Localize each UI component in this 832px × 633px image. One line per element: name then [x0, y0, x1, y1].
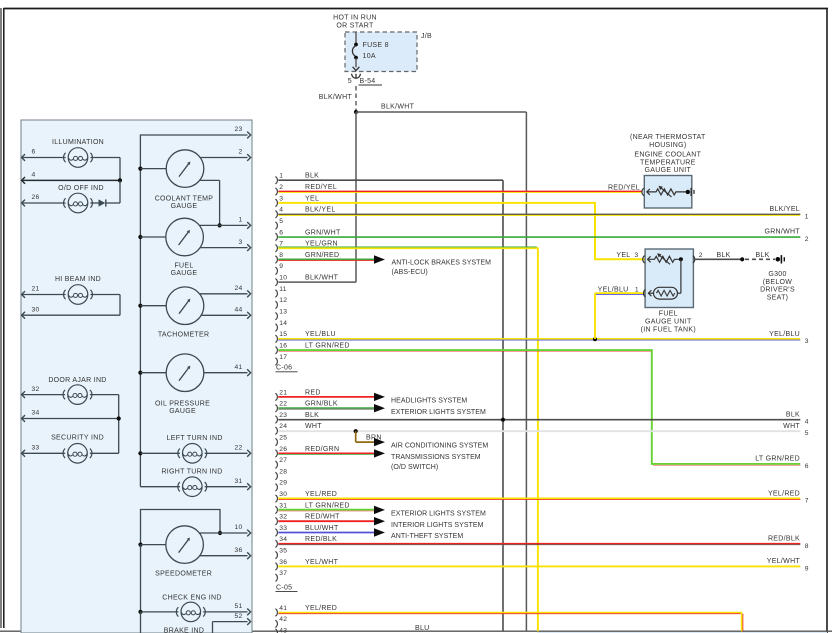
connector C-05 pin 30 YEL/RED — [275, 491, 337, 502]
pin 52 arrow out — [247, 618, 250, 625]
edge pin 3 YEL/BLU — [769, 331, 809, 345]
wire pin21 to lamp — [22, 294, 66, 296]
label EXTERIOR LIGHTS SYSTEM 1 — [391, 409, 486, 416]
wire pin34 RED/BLK run — [278, 544, 800, 545]
label TACHOMETER — [158, 332, 209, 339]
edge pin 9 YEL/WHT — [767, 558, 809, 572]
edge pin 2 GRN/WHT — [764, 229, 808, 243]
svg-text:INTERIOR LIGHTS SYSTEM: INTERIOR LIGHTS SYSTEM — [391, 522, 484, 529]
wire pin21 RED tap — [278, 396, 374, 398]
svg-text:32: 32 — [32, 386, 40, 393]
label FUSE 8 — [363, 42, 389, 49]
gauge FUEL — [166, 218, 204, 256]
fuel sender resistor R2 — [648, 287, 677, 299]
connector C-05 pin 27 — [275, 457, 287, 468]
node junction illumination/od — [118, 178, 122, 182]
svg-text:1: 1 — [635, 287, 639, 294]
node junction YEL/BLU — [593, 337, 597, 341]
svg-text:COOLANT TEMP: COOLANT TEMP — [155, 195, 214, 202]
svg-text:(BELOW: (BELOW — [763, 279, 793, 286]
border frame left outer line — [0, 8, 2, 628]
svg-text:9: 9 — [805, 565, 809, 572]
pin 1 label — [238, 217, 242, 224]
svg-text:C-05: C-05 — [276, 584, 292, 591]
svg-text:10: 10 — [279, 275, 287, 282]
wire pin41 YEL/RED run — [278, 613, 743, 632]
connector C-05 pin 29 — [275, 480, 287, 491]
connector C-06 pin 12 — [275, 297, 287, 308]
node bus fuel — [138, 235, 142, 239]
svg-text:(IN FUEL TANK): (IN FUEL TANK) — [641, 326, 696, 333]
svg-text:BLK: BLK — [305, 173, 319, 180]
svg-text:36: 36 — [234, 547, 242, 554]
wire fuel pin3 — [200, 247, 247, 249]
svg-text:DOOR AJAR IND: DOOR AJAR IND — [48, 377, 106, 384]
wire fuelgauge pin1 — [199, 224, 247, 226]
connector C-05 pin 28 — [275, 468, 287, 479]
wire bus corner to rightturn lamp — [140, 486, 180, 488]
connector C-05 pin 26 RED/GRN — [275, 446, 339, 457]
wire fuse top lead — [355, 32, 357, 45]
label C-05 — [276, 584, 298, 591]
label HI BEAM IND — [55, 276, 101, 283]
arrow air conditioning system — [374, 438, 385, 446]
label YEL/BLU 1 at fuel unit — [598, 287, 639, 294]
svg-text:3: 3 — [238, 239, 242, 246]
wire fuel internal down — [678, 259, 681, 293]
svg-text:8: 8 — [805, 543, 809, 550]
label FUEL GAUGE — [171, 263, 198, 278]
svg-text:4: 4 — [279, 207, 283, 214]
fuse FUSE 8 10A — [352, 43, 357, 60]
connector C-05 pin 33 BLU/WHT — [275, 525, 339, 536]
border frame top line — [4, 8, 829, 10]
svg-text:16: 16 — [279, 343, 287, 350]
svg-text:RED/BLK: RED/BLK — [768, 536, 800, 543]
arrow interior lights system — [374, 517, 385, 525]
connector C-06 pin 6 GRN/WHT — [275, 229, 341, 240]
svg-text:29: 29 — [279, 480, 287, 487]
pin 36 label — [234, 547, 242, 554]
pin 44 arrow out — [247, 312, 250, 319]
svg-text:B-54: B-54 — [360, 78, 376, 85]
diode D1 o/d off — [99, 199, 106, 206]
connector C-05 pin 25 — [275, 435, 287, 446]
wire speedo pin10 — [199, 532, 247, 534]
svg-text:O/D OFF IND: O/D OFF IND — [58, 185, 104, 192]
svg-text:LT GRN/RED: LT GRN/RED — [755, 456, 800, 463]
svg-text:DRIVER'S: DRIVER'S — [760, 287, 795, 294]
pin 1 arrow out — [247, 222, 250, 229]
svg-text:23: 23 — [234, 126, 242, 133]
arrow transmissions system — [374, 449, 385, 457]
connector C-05 pin 36 YEL/WHT — [275, 559, 338, 570]
connector C-05 pin 21 RED — [275, 389, 320, 400]
wire rightturn pin31 — [205, 486, 248, 488]
svg-text:RED/WHT: RED/WHT — [305, 514, 340, 521]
instrument cluster panel box — [21, 120, 252, 633]
wire BLK/WHT dashed from B-54 — [355, 86, 357, 110]
arrow fuse output — [353, 67, 360, 71]
wire pin33 to lamp — [22, 452, 65, 454]
pin 44 label — [234, 307, 242, 314]
wire bus to oil gauge — [140, 372, 166, 374]
connector C-06 pin 9 — [275, 263, 283, 274]
svg-text:GRN/WHT: GRN/WHT — [305, 229, 341, 236]
svg-text:31: 31 — [279, 502, 287, 509]
connector pin 42 — [275, 616, 287, 627]
svg-text:GAUGE: GAUGE — [171, 270, 198, 277]
svg-text:5: 5 — [279, 218, 283, 225]
fuel gauge unit box U3 — [645, 249, 693, 308]
label CHECK ENG IND — [162, 594, 222, 601]
wire BLK/WHT horizontal run — [356, 111, 526, 113]
svg-text:GRN/RED: GRN/RED — [305, 252, 339, 259]
fuel unit pin 2 bracket — [693, 256, 695, 263]
node bus leftturn — [138, 451, 142, 455]
label G300 — [760, 271, 795, 301]
label 2 BLK at fuel unit — [699, 252, 731, 259]
pin 31 label — [234, 478, 242, 485]
arrow anti-theft system — [374, 528, 385, 536]
label ECT gauge unit title — [630, 134, 706, 174]
wire bus to brake lamp — [140, 612, 142, 633]
border frame right line — [826, 9, 828, 633]
svg-text:RED/GRN: RED/GRN — [305, 446, 339, 453]
connector C-06 pin 16 LT GRN/RED — [275, 343, 349, 354]
svg-text:8: 8 — [279, 252, 283, 259]
label COOLANT TEMP GAUGE — [155, 195, 214, 210]
svg-text:G300: G300 — [768, 271, 786, 278]
connector C-05 pin 37 — [275, 570, 287, 581]
pin 32 label — [32, 386, 40, 393]
ECT gauge unit box U2 — [644, 176, 692, 209]
gauge SPEEDOMETER — [166, 526, 204, 564]
wire oil pin41 — [204, 372, 248, 374]
lamp HI BEAM IND — [64, 285, 93, 305]
svg-text:YEL: YEL — [305, 195, 319, 202]
svg-text:AIR CONDITIONING SYSTEM: AIR CONDITIONING SYSTEM — [391, 443, 488, 450]
connector pin 41 YEL/RED — [275, 605, 337, 616]
pin 24 label — [234, 285, 242, 292]
arrow exterior lights system 1 — [374, 404, 385, 412]
connector C-05 pin 22 GRN/BLK — [275, 401, 337, 412]
svg-text:(O/D SWITCH): (O/D SWITCH) — [391, 464, 438, 471]
pin 41 arrow out — [247, 369, 250, 376]
svg-text:3: 3 — [635, 252, 639, 259]
label O/D OFF IND — [58, 185, 104, 192]
wire fuse bottom lead — [355, 58, 357, 67]
label ANTI-LOCK BRAKES SYSTEM — [392, 259, 492, 276]
svg-text:41: 41 — [234, 364, 242, 371]
connector C-06 pin 11 — [275, 286, 286, 297]
pin 34 arrow — [22, 415, 25, 422]
svg-text:2: 2 — [699, 252, 703, 259]
label BRAKE IND — [164, 628, 204, 633]
svg-text:22: 22 — [234, 445, 242, 452]
svg-text:LT GRN/RED: LT GRN/RED — [305, 502, 350, 509]
pin 6 label — [32, 149, 36, 156]
svg-text:HOUSING): HOUSING) — [649, 142, 686, 149]
pin 41 label — [234, 364, 242, 371]
wire coolant pin2 — [200, 157, 247, 159]
wire pin1 BLK run — [278, 180, 503, 631]
node junction BLK pin23 — [501, 418, 505, 422]
svg-text:1: 1 — [805, 213, 809, 220]
wire BLK/WHT vertical long run — [525, 112, 527, 631]
arrow exterior lights system 2 — [374, 506, 385, 514]
svg-text:ENGINE COOLANT: ENGINE COOLANT — [634, 152, 701, 159]
connector C-05 pin 35 — [275, 548, 287, 559]
svg-text:YEL/RED: YEL/RED — [768, 490, 800, 497]
wire checkeng pin51 — [203, 611, 247, 613]
wire od lamp to diode — [90, 202, 98, 204]
node bus oil — [138, 371, 142, 375]
svg-text:6: 6 — [279, 229, 283, 236]
svg-text:ILLUMINATION: ILLUMINATION — [52, 139, 104, 146]
svg-text:1: 1 — [279, 173, 283, 180]
wire pin6 to lamp — [22, 157, 66, 159]
svg-text:23: 23 — [279, 412, 287, 419]
wire bus to leftturn lamp — [140, 452, 180, 454]
connector C-06 pin 1 BLK — [275, 173, 319, 184]
pin 33 label — [32, 445, 40, 452]
svg-text:TRANSMISSIONS SYSTEM: TRANSMISSIONS SYSTEM — [391, 454, 481, 461]
wire bus lower — [140, 545, 142, 612]
svg-text:YEL/RED: YEL/RED — [305, 491, 337, 498]
lamp CHECK ENG IND — [176, 602, 205, 622]
label AIR CONDITIONING SYSTEM — [391, 443, 488, 450]
wire pin15 YEL/BLU run — [278, 339, 800, 340]
label YEL 3 at fuel unit — [616, 252, 638, 259]
ECT internal variable resistor — [647, 186, 686, 197]
svg-text:21: 21 — [32, 286, 40, 293]
svg-text:ANTI-LOCK BRAKES SYSTEM: ANTI-LOCK BRAKES SYSTEM — [392, 259, 492, 266]
svg-text:GAUGE: GAUGE — [171, 203, 198, 210]
pin 4 arrow — [22, 177, 25, 184]
edge pin 1 BLK/YEL — [769, 206, 808, 220]
label B-54 — [359, 78, 383, 85]
pin 21 arrow — [22, 291, 25, 298]
wire illumination lamp to corner — [90, 158, 120, 181]
svg-text:RED/YEL: RED/YEL — [305, 184, 337, 191]
node junction WHT brn tap — [354, 429, 358, 433]
gauge TACHOMETER — [166, 287, 204, 325]
wire pin30 — [22, 314, 120, 316]
pin 31 arrow out — [247, 483, 250, 490]
svg-text:15: 15 — [279, 331, 287, 338]
svg-text:41: 41 — [279, 605, 287, 612]
node junction pin1 — [218, 223, 222, 227]
svg-text:GAUGE UNIT: GAUGE UNIT — [645, 167, 692, 174]
label EXTERIOR LIGHTS SYSTEM 2 — [391, 511, 486, 518]
node junction BLK ground — [740, 257, 744, 261]
wire pin4 BLK/YEL run — [278, 214, 800, 215]
lamp RIGHT TURN IND — [178, 477, 207, 497]
svg-text:31: 31 — [234, 478, 242, 485]
svg-text:YEL: YEL — [616, 252, 630, 259]
svg-text:RIGHT TURN IND: RIGHT TURN IND — [161, 468, 222, 475]
label C-06 — [276, 365, 298, 372]
svg-text:44: 44 — [234, 307, 242, 314]
connector C-06 pin 15 YEL/BLU — [275, 331, 336, 342]
label BLK dashed — [756, 252, 770, 259]
connector C-06 pin 4 BLK/YEL — [275, 207, 335, 218]
svg-text:21: 21 — [279, 389, 287, 396]
label DOOR AJAR IND — [48, 377, 106, 384]
wire bus to speedometer — [141, 544, 166, 546]
label SECURITY IND — [51, 434, 104, 441]
svg-text:26: 26 — [32, 194, 40, 201]
label fuel gauge unit title — [641, 311, 696, 334]
connector C-05 pin 24 WHT — [275, 423, 322, 434]
connector B-54 socket — [352, 74, 361, 78]
svg-text:2: 2 — [238, 149, 242, 156]
pin 51 label — [234, 603, 242, 610]
connector C-05 pin 23 BLK — [275, 412, 319, 423]
pin 52 label — [234, 613, 242, 620]
wire speedo loop — [141, 510, 221, 545]
svg-text:GRN/WHT: GRN/WHT — [764, 229, 800, 236]
svg-text:13: 13 — [279, 309, 287, 316]
svg-text:2: 2 — [805, 236, 809, 243]
wire BLK/WHT down to pin 10 — [278, 112, 356, 282]
node junction speedo pin10 — [218, 531, 222, 535]
pin 10 label — [234, 524, 242, 531]
lamp ILLUMINATION — [64, 148, 93, 168]
svg-text:22: 22 — [279, 401, 287, 408]
svg-text:BRAKE IND: BRAKE IND — [164, 628, 204, 633]
wire pin23 BLK run — [278, 419, 800, 421]
svg-text:HI BEAM IND: HI BEAM IND — [55, 276, 101, 283]
arrow anti-lock brakes system — [374, 255, 385, 263]
connector C-05 pin 31 LT GRN/RED — [275, 502, 349, 513]
svg-text:YEL/BLU: YEL/BLU — [305, 331, 336, 338]
pin 22 arrow out — [247, 450, 250, 457]
wire pin8 GRN/RED tap — [278, 259, 374, 260]
wire pin4 bus — [22, 179, 120, 181]
svg-text:BLU/WHT: BLU/WHT — [305, 525, 339, 532]
svg-text:C-06: C-06 — [276, 365, 292, 372]
label 5 — [348, 78, 352, 85]
pin 23 arrow out — [247, 132, 250, 139]
wire leftturn pin22 — [205, 452, 248, 454]
label TRANSMISSIONS SYSTEM — [391, 454, 481, 471]
svg-text:2: 2 — [279, 184, 283, 191]
pin 2 label — [238, 149, 242, 156]
svg-text:SECURITY IND: SECURITY IND — [51, 434, 104, 441]
label BLK/WHT left of dashed wire — [319, 94, 353, 101]
svg-text:TEMPERATURE: TEMPERATURE — [640, 159, 696, 166]
pin 3 arrow out — [247, 244, 250, 251]
svg-text:EXTERIOR LIGHTS SYSTEM: EXTERIOR LIGHTS SYSTEM — [391, 409, 486, 416]
connector C-06 pin 10 BLK/WHT — [275, 275, 338, 286]
gauge OIL PRESSURE — [166, 354, 204, 392]
svg-text:5: 5 — [805, 430, 809, 437]
svg-text:26: 26 — [279, 446, 287, 453]
pin 51 arrow out — [247, 609, 250, 616]
svg-text:27: 27 — [279, 457, 287, 464]
svg-text:BLK: BLK — [786, 411, 800, 418]
node bus checkeng — [138, 610, 142, 614]
svg-text:3: 3 — [279, 195, 283, 202]
svg-text:WHT: WHT — [305, 423, 322, 430]
wire pin36 YEL/WHT run — [278, 565, 800, 567]
svg-text:43: 43 — [279, 627, 287, 633]
svg-text:GRN/BLK: GRN/BLK — [305, 401, 338, 408]
wire bus to checkeng lamp — [141, 611, 179, 613]
edge pin 7 YEL/RED — [768, 490, 809, 504]
svg-text:1: 1 — [238, 217, 242, 224]
svg-text:HOT IN RUN: HOT IN RUN — [333, 14, 377, 21]
wire security lamp right — [90, 452, 119, 454]
svg-text:4: 4 — [32, 172, 36, 179]
svg-text:LEFT TURN IND: LEFT TURN IND — [167, 435, 223, 442]
wire brake pin52 — [213, 622, 248, 633]
label RIGHT TURN IND — [161, 468, 222, 475]
svg-text:J/B: J/B — [421, 33, 432, 40]
svg-text:34: 34 — [32, 410, 40, 417]
wire pin31 LT GRN/RED tap — [278, 510, 374, 511]
node bus speedo — [138, 543, 142, 547]
connector C-06 pin 7 YEL/GRN — [275, 241, 337, 252]
junction block J/B box — [345, 32, 417, 72]
svg-text:SPEEDOMETER: SPEEDOMETER — [155, 571, 212, 578]
label 10A — [363, 53, 376, 60]
svg-text:OIL PRESSURE: OIL PRESSURE — [155, 400, 210, 407]
pin 21 label — [32, 286, 40, 293]
wire pin16 LT GRN/RED run — [278, 350, 800, 465]
wire bus to tachometer — [140, 305, 166, 307]
connector C-06 pin 3 YEL — [275, 195, 319, 206]
edge pin 6 LT GRN/RED — [755, 456, 809, 470]
node fuel unit internal junction — [679, 257, 683, 261]
pin 30 label — [32, 306, 40, 313]
svg-text:36: 36 — [279, 559, 287, 566]
pin 32 arrow — [22, 391, 25, 398]
gauge COOLANT TEMP — [166, 150, 204, 188]
label BLK/WHT horizontal — [381, 104, 415, 111]
svg-text:37: 37 — [279, 570, 287, 577]
arrow headlights system — [374, 393, 385, 401]
node bus coolant — [138, 167, 142, 171]
svg-text:6: 6 — [32, 149, 36, 156]
svg-text:BLK/WHT: BLK/WHT — [319, 94, 353, 101]
svg-text:12: 12 — [279, 297, 287, 304]
node junction doorajar/security — [117, 416, 121, 420]
svg-text:24: 24 — [279, 423, 287, 430]
connector C-06 pin 14 — [275, 320, 287, 331]
pin 2 arrow out — [247, 154, 250, 161]
pin 3 label — [238, 239, 242, 246]
svg-text:FUSE 8: FUSE 8 — [363, 42, 389, 49]
svg-text:BLK: BLK — [305, 412, 319, 419]
ECT pin bracket — [642, 188, 644, 195]
edge pin 4 BLK — [786, 411, 809, 425]
svg-text:BLK: BLK — [717, 252, 731, 259]
wire pin33 BLU/WHT tap — [278, 532, 374, 534]
label HEADLIGHTS SYSTEM — [391, 398, 467, 405]
svg-text:RED/BLK: RED/BLK — [305, 536, 337, 543]
wire coolant pin1 corner — [200, 180, 219, 225]
pin 33 arrow — [22, 450, 25, 457]
svg-text:10: 10 — [234, 524, 242, 531]
label LEFT TURN IND — [167, 435, 223, 442]
svg-text:RED: RED — [305, 389, 321, 396]
wire pin30 YEL/RED run — [278, 498, 800, 499]
svg-text:YEL/RED: YEL/RED — [305, 605, 337, 612]
pin 26 label — [32, 194, 40, 201]
